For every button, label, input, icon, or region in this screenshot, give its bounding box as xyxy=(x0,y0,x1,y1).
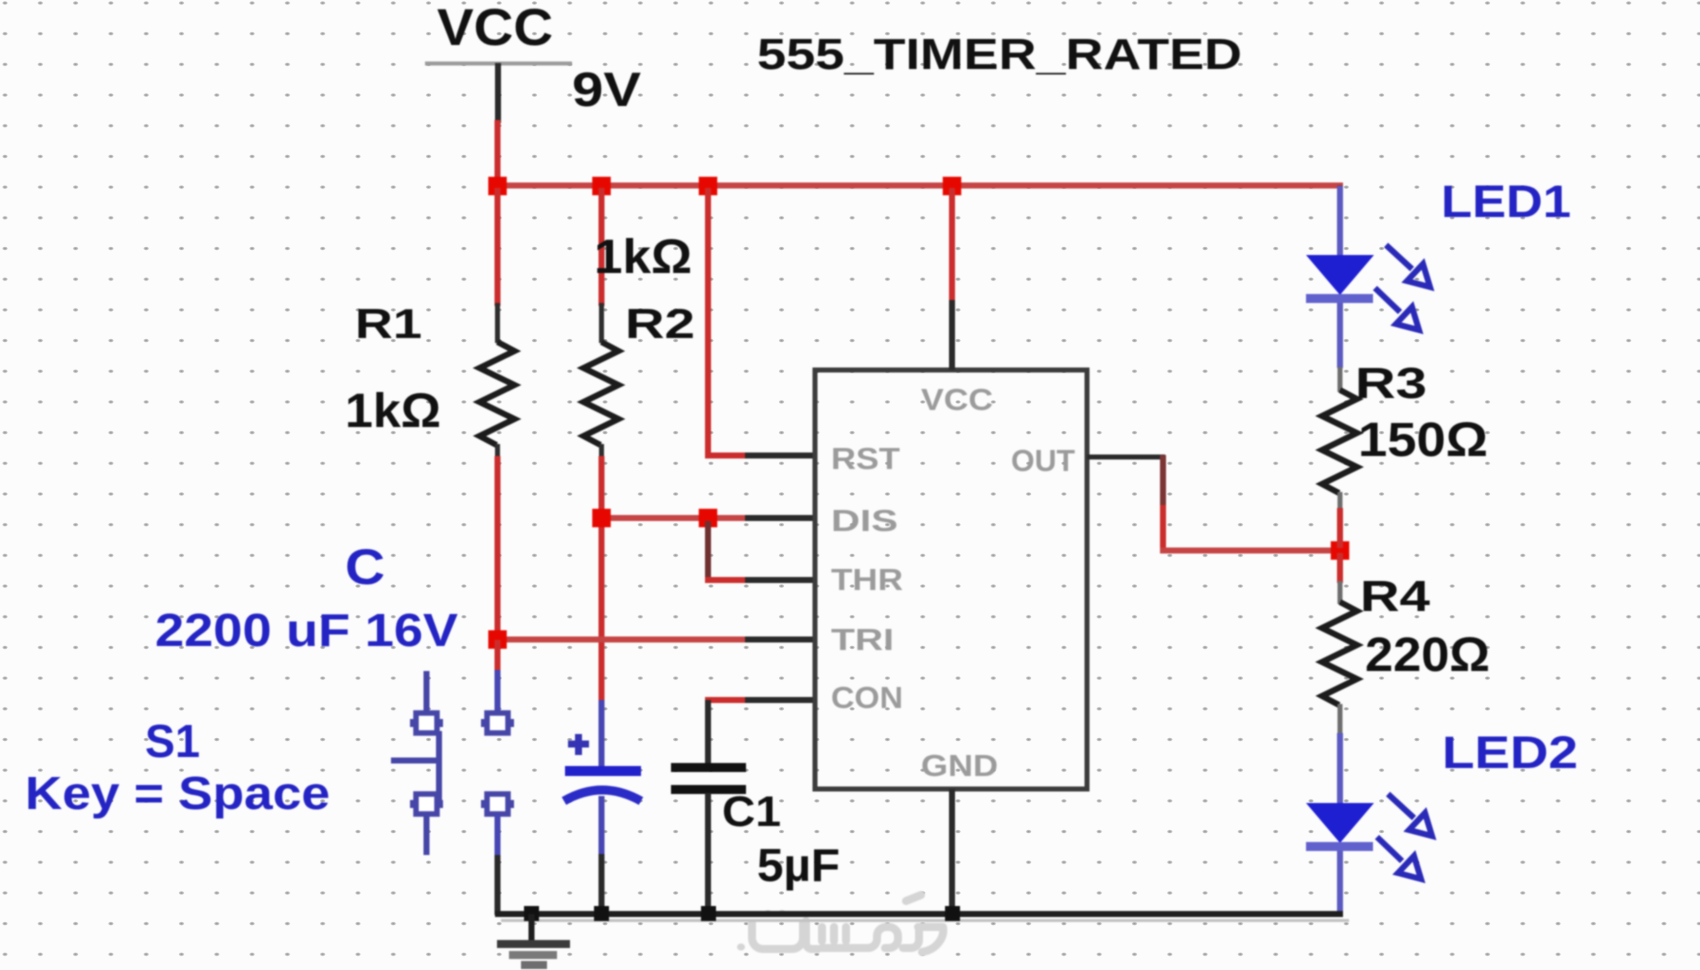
svg-text:TRI: TRI xyxy=(831,622,894,657)
resistor R3 xyxy=(1322,359,1488,510)
svg-text:1kΩ: 1kΩ xyxy=(345,385,441,438)
svg-text:LED2: LED2 xyxy=(1442,727,1578,778)
junction at R2 top xyxy=(592,177,611,196)
svg-text:C1: C1 xyxy=(722,788,781,836)
wire ground rail xyxy=(495,911,1343,917)
switch S1 contacts xyxy=(481,713,514,814)
junction DIS at R2 column xyxy=(592,509,611,528)
wire node to R4 red xyxy=(1337,553,1343,583)
wire R1 upper red xyxy=(495,188,501,306)
svg-text:R1: R1 xyxy=(355,300,422,347)
ground symbol xyxy=(497,914,570,969)
svg-text:220Ω: 220Ω xyxy=(1365,629,1490,682)
wire U1 GND pin down xyxy=(949,789,955,915)
junction DIS at THR link xyxy=(699,509,718,528)
svg-text:RST: RST xyxy=(831,441,900,476)
wire TRI pin xyxy=(497,637,815,643)
junction at U1 VCC riser xyxy=(943,177,962,196)
LED LED1 xyxy=(1306,176,1571,368)
wire CON corner down to C1 xyxy=(705,700,711,766)
svg-text:S1: S1 xyxy=(145,715,200,767)
resistor R2 xyxy=(584,231,696,458)
svg-text:GND: GND xyxy=(921,748,998,783)
svg-text:R2: R2 xyxy=(625,300,695,347)
svg-text:2200 uF 16V: 2200 uF 16V xyxy=(155,604,458,656)
resistor R4 xyxy=(1322,572,1490,735)
wire R2 lower red down to capacitor C xyxy=(599,456,605,703)
wire ground rail shadow xyxy=(501,919,1349,922)
wire OUT pin horizontal xyxy=(1087,455,1165,460)
svg-text:150Ω: 150Ω xyxy=(1358,414,1488,467)
LED LED2 xyxy=(1306,727,1578,915)
wire OUT to R3/R4 node xyxy=(1160,548,1340,554)
wire RST riser red xyxy=(705,188,711,458)
switch S1 labels xyxy=(25,715,330,819)
wire C to ground black xyxy=(599,854,605,915)
wire R3 to node red xyxy=(1337,508,1343,548)
junction C1 column at rail xyxy=(701,906,716,921)
svg-text:LED1: LED1 xyxy=(1441,176,1571,227)
wire THR pin xyxy=(705,577,815,583)
wire S1 top lead xyxy=(495,640,501,714)
svg-text:DIS: DIS xyxy=(831,503,898,538)
svg-text:VCC: VCC xyxy=(437,0,553,57)
junction at R1 top xyxy=(488,177,507,196)
svg-text:R4: R4 xyxy=(1360,572,1431,621)
wire CON pin xyxy=(705,697,815,703)
LED2 light arrows xyxy=(1377,794,1432,879)
svg-text:VCC: VCC xyxy=(921,382,993,417)
LED1 light arrows xyxy=(1375,245,1430,330)
power symbol VCC xyxy=(425,0,572,123)
wire RST pin xyxy=(705,453,815,459)
resistor R1 xyxy=(345,300,515,458)
wire U1 VCC pin riser xyxy=(949,188,955,370)
svg-text:1kΩ: 1kΩ xyxy=(594,231,692,284)
capacitor C electrolytic xyxy=(564,700,641,856)
wire DIS-THR link xyxy=(705,521,711,580)
wire OUT riser down xyxy=(1160,455,1166,553)
wire R2 upper red xyxy=(599,188,605,306)
node LED1 top corner xyxy=(1337,185,1343,188)
junction at RST riser xyxy=(699,177,718,196)
svg-text:CON: CON xyxy=(831,680,903,715)
watermark khamsat xyxy=(737,895,943,952)
svg-text:555_TIMER_RATED: 555_TIMER_RATED xyxy=(757,30,1242,79)
junction ground tap xyxy=(524,906,539,921)
wire DIS pin xyxy=(601,515,815,521)
junction OUT node xyxy=(1331,541,1350,560)
svg-text:THR: THR xyxy=(831,562,903,597)
wire top VCC rail xyxy=(495,183,1343,189)
svg-text:9V: 9V xyxy=(572,64,641,117)
junction U1 GND at rail xyxy=(945,906,960,921)
junction C column at rail xyxy=(594,906,609,921)
switch S1 actuator xyxy=(391,671,443,855)
capacitor C1 xyxy=(671,763,840,915)
junction TRI at R1 column xyxy=(488,630,507,649)
svg-text:OUT: OUT xyxy=(1011,443,1075,478)
svg-text:Key = Space: Key = Space xyxy=(25,767,330,819)
wire VCC vertical red xyxy=(495,120,501,188)
wire S1 bottom lead xyxy=(495,814,501,915)
capacitor C label xyxy=(155,539,458,656)
svg-text:C: C xyxy=(345,539,385,595)
wire R1 lower red to TRI rail xyxy=(495,456,501,642)
svg-text:5µF: 5µF xyxy=(757,839,840,891)
svg-text:R3: R3 xyxy=(1355,359,1427,408)
op-amp U1 555 timer box xyxy=(815,370,1087,789)
